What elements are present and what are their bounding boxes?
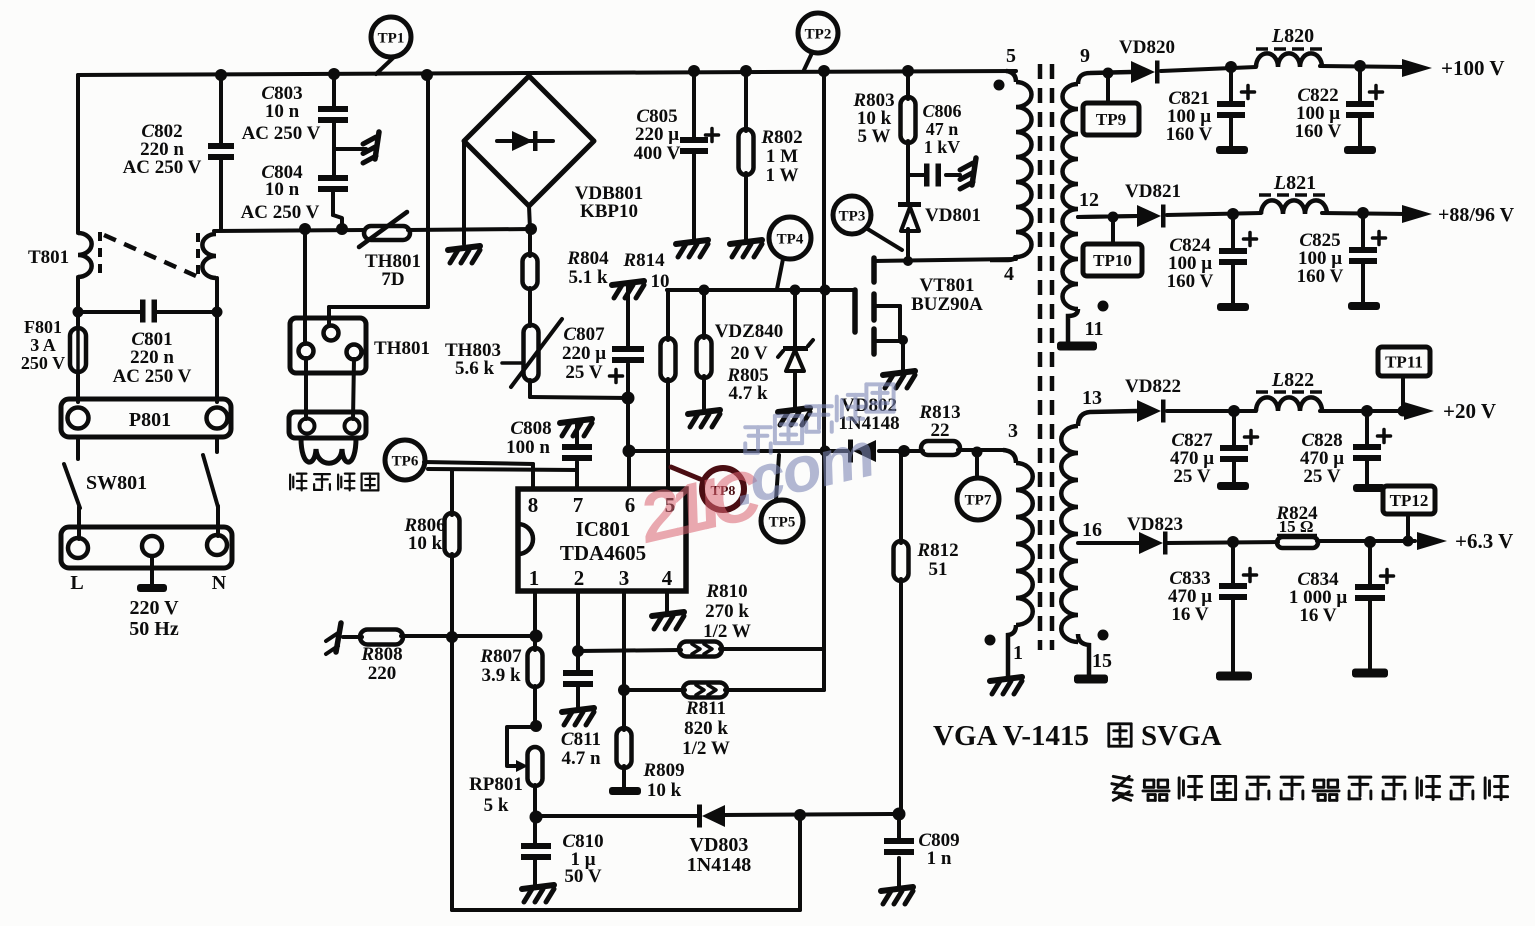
wire pin16 tap [1078, 541, 1139, 545]
value R807 [479, 646, 522, 686]
node C801 right junction [212, 307, 223, 318]
ground bar pin11 [1057, 342, 1097, 351]
value C803 [242, 83, 321, 144]
svg-text:VDZ840: VDZ840 [715, 321, 784, 342]
value R811 [682, 698, 730, 759]
value R808 [360, 644, 402, 684]
svg-text:8: 8 [528, 493, 539, 517]
svg-text:10 n: 10 n [265, 179, 300, 200]
svg-text:TP5: TP5 [769, 514, 796, 530]
svg-text:R810: R810 [705, 581, 747, 602]
value C827 [1170, 430, 1214, 487]
node C821 top [1225, 61, 1237, 73]
wire pin3 column [622, 591, 626, 692]
subtitle 多频彩色显示器的电源电路 [1112, 776, 1508, 800]
value C802 [123, 121, 202, 178]
wire relay left [303, 230, 307, 344]
svg-text:50 Hz: 50 Hz [129, 618, 179, 640]
svg-text:1 n: 1 n [927, 848, 952, 869]
label +6.3 V [1455, 529, 1513, 553]
node C834 top [1364, 536, 1376, 548]
wire C834 column [1368, 542, 1372, 670]
node C822 top [1354, 60, 1366, 72]
svg-text:220: 220 [368, 663, 397, 684]
wire switch to socket N [216, 506, 220, 536]
label VD801 [925, 205, 981, 226]
node feedback crossing [820, 446, 831, 457]
svg-text:RP801: RP801 [469, 774, 523, 795]
svg-text:220 μ: 220 μ [562, 343, 606, 364]
chassis arrow R808 [326, 623, 341, 654]
wire VD801 to drain [906, 229, 910, 261]
svg-text:15: 15 [1092, 650, 1112, 672]
value C801 [113, 329, 192, 387]
connector socket 220V [61, 527, 232, 568]
wire pin4 [665, 591, 669, 612]
value C834 [1289, 569, 1348, 626]
svg-text:+20 V: +20 V [1443, 399, 1496, 423]
label TH803 5.6k [445, 340, 501, 379]
capacitor C805 [680, 129, 719, 155]
svg-text:160 V: 160 V [1166, 124, 1213, 145]
wire C821 column [1229, 67, 1233, 148]
node mains rail degauss [299, 223, 311, 235]
pin 16 label [1082, 519, 1102, 541]
wire R804 column [528, 229, 532, 397]
node pin3 junction [618, 684, 630, 696]
pin 8 [528, 493, 539, 517]
resistor R807 [528, 648, 543, 687]
wire secondary pin15 [1078, 634, 1089, 677]
diode VD822 [1137, 400, 1166, 423]
resistor R824 [1277, 537, 1318, 548]
wire R814 column [666, 290, 670, 489]
label VD803 1N4148 [687, 834, 751, 876]
svg-text:TP4: TP4 [777, 231, 804, 247]
svg-text:R811: R811 [685, 698, 726, 719]
wire R805 column [702, 290, 706, 410]
svg-text:R804: R804 [566, 248, 609, 269]
node control line crossing [820, 285, 831, 296]
connector P801 [61, 399, 231, 437]
svg-text:11: 11 [1085, 318, 1104, 340]
ground chassis C805 [676, 240, 708, 257]
capacitor C806 [924, 164, 941, 187]
phase dot primary top [994, 80, 1005, 91]
pin 6 [625, 493, 636, 517]
node R807 RP801 [530, 720, 542, 732]
label TH801 relay [374, 338, 430, 359]
svg-text:160 V: 160 V [1295, 121, 1342, 142]
value C811 [561, 729, 601, 769]
wire feedback vertical [822, 71, 826, 690]
svg-text:10 k: 10 k [408, 533, 443, 554]
wire C805 column [692, 71, 696, 240]
value R802 [760, 127, 802, 186]
svg-text:N: N [212, 572, 227, 594]
testpoint TP10 [1083, 212, 1142, 277]
wire mains rail [214, 229, 532, 231]
ground bar C834 [1352, 669, 1388, 678]
wire primary feedback line [629, 449, 904, 453]
wire bottom return [452, 815, 800, 910]
title VGA V-1415 SVGA [933, 720, 1222, 752]
arrow +100V [1402, 59, 1432, 77]
wire R813 to pin3 [904, 450, 1003, 451]
degauss coil loops [301, 438, 356, 463]
ground mains earth bar [137, 584, 167, 592]
ground chassis above C808 [560, 419, 592, 436]
transformer core [1040, 64, 1052, 650]
node C810 junction [530, 811, 543, 824]
wire pin3 into primary [1003, 450, 1016, 463]
wire C824 column [1231, 214, 1235, 305]
svg-text:7: 7 [573, 493, 584, 517]
wire VDZ840 column [793, 290, 797, 408]
svg-text:VD821: VD821 [1125, 181, 1181, 202]
node top rail C803 [328, 68, 340, 80]
svg-text:IC801: IC801 [576, 517, 631, 541]
svg-text:220 n: 220 n [130, 347, 174, 368]
switch SW801 left blade [64, 464, 80, 508]
wire pin1 column [533, 591, 537, 885]
wire primary to pin4 [990, 255, 1016, 260]
value R814 [622, 250, 669, 292]
transformer secondary winding 9-11 [1063, 84, 1079, 309]
svg-text:16 V: 16 V [1299, 605, 1336, 626]
label VT801 BUZ90A [911, 275, 983, 315]
svg-text:VD803: VD803 [690, 834, 749, 856]
value F801 [21, 317, 65, 373]
svg-text:VT801: VT801 [920, 275, 975, 296]
wire R811 link [624, 688, 824, 692]
svg-text:5.1 k: 5.1 k [568, 267, 608, 288]
svg-text:KBP10: KBP10 [580, 201, 638, 222]
ground bar C821 [1216, 146, 1248, 154]
ground chassis C811 [562, 708, 594, 725]
value RP801 [469, 774, 523, 816]
wire pin11 [1068, 309, 1078, 342]
wire pin2 column [576, 591, 580, 708]
svg-text:10 n: 10 n [265, 101, 300, 122]
resistor R812 [894, 541, 909, 581]
wire TP6 to pin8 [424, 462, 533, 489]
pin 1 label [1013, 642, 1023, 664]
pin 1 [529, 566, 540, 590]
value C804 [241, 162, 320, 223]
svg-text:20 V: 20 V [730, 343, 767, 364]
pin 12 label [1079, 189, 1099, 211]
wire R809 column [622, 690, 626, 788]
wire pin6 [627, 451, 631, 489]
diode VD803 [697, 805, 725, 828]
svg-text:TP3: TP3 [839, 208, 866, 224]
wire C801 link [78, 310, 217, 314]
svg-text:AC 250 V: AC 250 V [241, 202, 320, 223]
wire C802 column [219, 75, 223, 230]
wire C833 column [1231, 542, 1235, 673]
pin 3 label [1008, 420, 1018, 442]
svg-text:3 A: 3 A [30, 335, 56, 355]
arrow +6.3V [1417, 532, 1447, 550]
label P801 [129, 409, 171, 431]
wire fuse to plug P801 [76, 375, 80, 402]
inductor L822 [1256, 397, 1322, 411]
node mains rail bridge [525, 223, 537, 235]
wire C827 column [1232, 411, 1236, 484]
svg-text:1N4148: 1N4148 [687, 854, 751, 876]
svg-text:4.7 n: 4.7 n [561, 748, 601, 769]
svg-text:25 V: 25 V [1173, 466, 1210, 487]
svg-text:10 k: 10 k [647, 780, 682, 801]
label +20 V [1443, 399, 1496, 423]
capacitor C808 [562, 444, 592, 461]
node R805 top [699, 285, 710, 296]
value R812 [916, 540, 958, 580]
value R805 [726, 365, 768, 404]
svg-text:1/2 W: 1/2 W [682, 738, 730, 759]
label T801 [28, 247, 69, 268]
label IC801 TDA4605 [560, 517, 646, 565]
svg-text:3: 3 [619, 566, 630, 590]
pin 4 label [1004, 263, 1014, 285]
svg-text:VD822: VD822 [1125, 376, 1181, 397]
value R806 [403, 515, 445, 554]
wire C825 column [1361, 213, 1365, 304]
ground bar C825 [1348, 302, 1380, 310]
label 220V 50Hz [129, 597, 179, 640]
node VDZ840 top [790, 285, 801, 296]
wire top rail into primary [1006, 71, 1016, 82]
ground bar C828 [1353, 484, 1385, 492]
svg-text:220 V: 220 V [129, 597, 179, 619]
potentiometer TH803 [502, 319, 562, 387]
pin 13 label [1082, 387, 1102, 409]
capacitor C804 [318, 175, 348, 192]
transistor VT801 MOSFET [855, 258, 908, 371]
node pin1 R807 [530, 630, 543, 643]
wire T801 secondary to P801 [215, 278, 219, 402]
capacitor C828 [1353, 430, 1391, 462]
ground chassis C809 [881, 887, 913, 904]
svg-text:1 M: 1 M [766, 146, 798, 167]
potentiometer RP801 [507, 727, 543, 786]
wire R802 column [744, 71, 748, 240]
svg-text:25 V: 25 V [1303, 466, 1340, 487]
wire R803 column [906, 71, 910, 204]
label VDZ840 20V [715, 321, 784, 364]
label +88/96 V [1438, 204, 1515, 226]
node C809 junction [893, 808, 906, 821]
svg-text:TP6: TP6 [392, 453, 419, 469]
ground chassis pin1 [990, 677, 1022, 694]
svg-text:47 n: 47 n [926, 119, 959, 139]
resistor R802 [739, 129, 754, 175]
svg-text:TP7: TP7 [965, 492, 992, 508]
wire switch to socket L [77, 507, 81, 539]
svg-text:270 k: 270 k [705, 601, 749, 622]
svg-text:TP1: TP1 [378, 30, 405, 46]
svg-text:BUZ90A: BUZ90A [911, 294, 983, 315]
value C807 [562, 324, 606, 383]
diode VD802 [848, 440, 876, 463]
label N [212, 572, 227, 594]
label VD820 [1119, 37, 1175, 58]
wire +88V rail [1078, 213, 1406, 217]
testpoint TP9 [1083, 68, 1139, 136]
capacitor C825 [1349, 232, 1386, 265]
node C833 top [1227, 536, 1239, 548]
node top rail relay feed [421, 69, 433, 81]
testpoint TP1 [371, 17, 411, 74]
svg-text:25 V: 25 V [565, 362, 602, 383]
value C806 [922, 101, 961, 157]
ground bar C833 [1216, 672, 1252, 681]
svg-text:250 V: 250 V [21, 353, 65, 373]
svg-text:TP10: TP10 [1093, 251, 1132, 270]
pin 4 [662, 566, 673, 590]
svg-text:TP2: TP2 [805, 26, 832, 42]
wire P801-L to switch [76, 437, 80, 459]
svg-text:F801: F801 [24, 317, 62, 337]
svg-text:SVGA: SVGA [1141, 720, 1222, 752]
wire pin12 tap [1078, 216, 1139, 217]
ground chassis above C807 [612, 281, 644, 298]
watermark 中国电子网 blue [745, 384, 893, 452]
wire bridge AC left [462, 141, 466, 244]
value C822 [1295, 85, 1342, 142]
watermark 21IC pink [631, 454, 770, 558]
wire TH803 to C807 [530, 397, 629, 398]
ground chassis bridge [448, 246, 480, 263]
svg-text:C808: C808 [510, 418, 551, 439]
watermark .com blue [726, 418, 880, 520]
wire VD803 rail [536, 814, 899, 816]
svg-text:SW801: SW801 [86, 472, 147, 494]
svg-text:TH801: TH801 [374, 338, 430, 359]
testpoint TP2 [798, 13, 838, 70]
testpoint TP4 [769, 217, 811, 289]
svg-text:L820: L820 [1271, 25, 1314, 47]
svg-text:VGA V-1415: VGA V-1415 [933, 720, 1089, 752]
wire T801 primary to fuse [76, 277, 80, 329]
svg-text:AC 250 V: AC 250 V [242, 123, 321, 144]
svg-text:TP11: TP11 [1385, 353, 1423, 372]
node pin2 junction [572, 645, 584, 657]
testpoint TP3 [833, 196, 902, 250]
ground bar C827 [1217, 482, 1249, 490]
svg-text:6: 6 [625, 493, 636, 517]
capacitor C824 [1219, 233, 1257, 266]
wire C803 column [333, 75, 342, 229]
svg-text:L: L [70, 572, 83, 594]
rectifier VDB801 bridge [464, 76, 594, 206]
testpoint TP5 [761, 455, 803, 542]
ground bar C822 [1344, 146, 1376, 154]
capacitor C834 [1355, 570, 1394, 602]
node C807 junction [622, 392, 635, 405]
node C828 top [1361, 405, 1373, 417]
svg-text:R808: R808 [360, 644, 402, 665]
svg-text:5 k: 5 k [484, 795, 509, 816]
fuse F801 [70, 322, 86, 377]
node top rail C805 [688, 65, 700, 77]
svg-text:51: 51 [929, 559, 948, 580]
node top rail R802 [740, 65, 752, 77]
node VD803 right [794, 809, 806, 821]
svg-text:R812: R812 [916, 540, 958, 561]
svg-text:4.7 k: 4.7 k [728, 383, 768, 404]
capacitor C833 [1219, 569, 1257, 601]
resistor R811 [683, 683, 727, 698]
node C801 left junction [73, 307, 84, 318]
wire TP6 to pin7 [428, 469, 577, 470]
phase dot primary pin1 [985, 635, 996, 646]
wire zener rail [667, 288, 855, 292]
inductor L821 [1261, 200, 1327, 214]
wire relay feed vertical [329, 75, 428, 326]
svg-text:50 V: 50 V [564, 866, 601, 887]
IC IC801 TDA4605 [518, 489, 686, 591]
wire C828 column [1365, 411, 1369, 486]
value C810 [562, 831, 603, 887]
wire left mains vertical (T801 primary top) [76, 75, 80, 233]
phase dot secondary 15 [1098, 630, 1109, 641]
wire earth stem [150, 556, 154, 585]
testpoint TP8 [671, 467, 744, 510]
label VD802 1N4148 [838, 395, 899, 434]
ground bar pin15 [1074, 675, 1108, 684]
wire R812 column [899, 451, 903, 814]
ground chassis C810 [522, 885, 554, 902]
svg-text:16: 16 [1082, 519, 1102, 541]
ground chassis VT801 source [883, 371, 915, 388]
svg-text:400 V: 400 V [634, 143, 681, 164]
svg-text:R814: R814 [622, 250, 665, 271]
arrow +88/96V [1402, 205, 1432, 223]
testpoint TP7 [957, 447, 999, 521]
transformer primary winding 3-1 [1016, 463, 1033, 625]
ground chassis pin4 [652, 612, 684, 629]
switch SW801 right blade [203, 455, 218, 507]
svg-text:1 W: 1 W [766, 165, 799, 186]
svg-text:22: 22 [931, 420, 950, 441]
resistor R809 [617, 728, 632, 768]
svg-text:5.6 k: 5.6 k [455, 358, 495, 379]
svg-text:C811: C811 [561, 729, 601, 750]
node top rail C802 [215, 69, 227, 81]
node top rail R803 [902, 65, 914, 77]
svg-text:R802: R802 [760, 127, 802, 148]
pin 11 label [1085, 318, 1104, 340]
label VDB801 KBP10 [575, 183, 644, 222]
svg-text:TP12: TP12 [1390, 491, 1429, 510]
node mains rail C804 [336, 223, 348, 235]
capacitor C810 [521, 843, 551, 860]
transformer primary winding 5-4 [1016, 82, 1032, 257]
value C828 [1300, 430, 1344, 487]
wire relay to degauss plug [306, 358, 354, 419]
svg-text:2: 2 [574, 566, 585, 590]
wire AC top rail [78, 71, 1016, 75]
pin 9 label [1080, 45, 1090, 67]
svg-text:VD801: VD801 [925, 205, 981, 226]
resistor R810 [679, 642, 722, 657]
svg-text:4: 4 [662, 566, 673, 590]
svg-text:1/2 W: 1/2 W [703, 621, 751, 642]
svg-text:AC 250 V: AC 250 V [113, 366, 192, 387]
transformer T801 core dashes [100, 232, 198, 280]
